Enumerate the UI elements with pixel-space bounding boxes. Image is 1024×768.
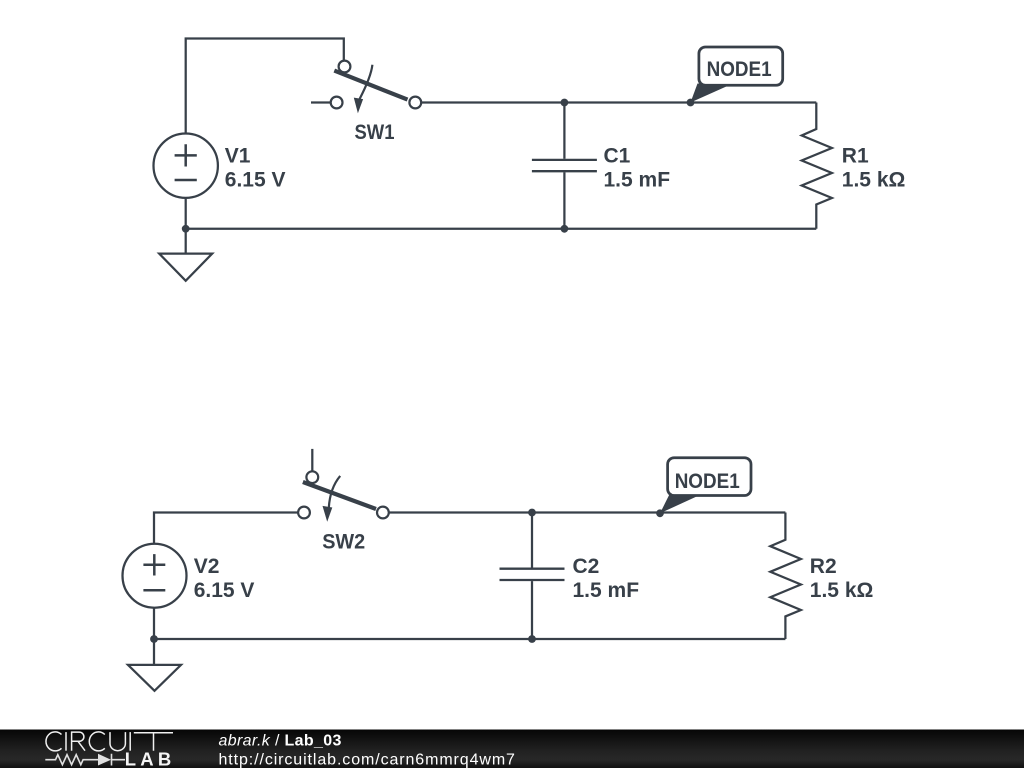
- svg-text:SW2: SW2: [322, 531, 365, 554]
- node NODE1 flag circuit 2: [660, 458, 751, 514]
- label R1 value: [842, 145, 906, 192]
- switch SW1: [331, 61, 421, 114]
- junction dot C2 top: [528, 509, 536, 517]
- node dot NODE1 circuit 1: [687, 99, 695, 107]
- logo CIRCUIT wordmark: [46, 732, 173, 751]
- junction dot V1 bottom: [182, 225, 190, 233]
- junction dot C1 bottom: [561, 225, 569, 233]
- logo resistor-diode symbol: [45, 754, 125, 766]
- footer bar: [0, 730, 1024, 768]
- wire V1 bottom to ground: [185, 198, 187, 254]
- svg-text:http://circuitlab.com/carn6mmr: http://circuitlab.com/carn6mmrq4wm7: [219, 751, 516, 768]
- label C1 value: [604, 145, 671, 192]
- voltage source V1: [154, 134, 218, 198]
- junction dot C2 bottom: [528, 635, 536, 643]
- wire V2 bottom to ground: [153, 608, 155, 665]
- wire V2 top to SW2: [154, 513, 298, 544]
- svg-text:SW1: SW1: [355, 121, 395, 144]
- node dot NODE1 circuit 2: [656, 509, 664, 517]
- label C2 value: [573, 555, 640, 602]
- wire bottom rail circuit 2: [154, 638, 785, 640]
- svg-text:6.15 V: 6.15 V: [225, 169, 286, 192]
- svg-text:NODE1: NODE1: [675, 470, 740, 493]
- node NODE1 flag circuit 1: [691, 47, 783, 103]
- ground symbol circuit 1: [159, 254, 212, 281]
- label V1 value: [225, 145, 286, 192]
- svg-text:abrar.k / Lab_03: abrar.k / Lab_03: [219, 732, 342, 749]
- label V2 value: [194, 555, 255, 602]
- wire stub above SW2 upper throw: [311, 449, 313, 471]
- svg-text:NODE1: NODE1: [707, 58, 772, 81]
- resistor R2: [770, 513, 801, 640]
- svg-text:1.5 mF: 1.5 mF: [573, 579, 640, 602]
- svg-text:1.5 mF: 1.5 mF: [604, 169, 671, 192]
- svg-text:6.15 V: 6.15 V: [194, 579, 255, 602]
- ground symbol circuit 2: [128, 665, 181, 691]
- svg-text:C2: C2: [573, 555, 600, 578]
- resistor R1: [802, 103, 832, 229]
- svg-text:R2: R2: [810, 555, 837, 578]
- wire top-left loop V1 to SW1: [186, 39, 344, 134]
- junction dot C1 top: [561, 99, 569, 107]
- svg-text:C1: C1: [604, 145, 631, 168]
- switch SW2: [298, 471, 389, 521]
- svg-text:R1: R1: [842, 145, 869, 168]
- label R2 value: [810, 555, 874, 602]
- voltage source V2: [123, 544, 187, 608]
- svg-text:V2: V2: [194, 555, 220, 578]
- logo diode triangle: [98, 754, 111, 766]
- svg-text:V1: V1: [225, 145, 251, 168]
- wire top rail SW1 to R1: [421, 101, 816, 103]
- svg-text:1.5 kΩ: 1.5 kΩ: [810, 579, 874, 602]
- junction dot V2 bottom: [150, 635, 158, 643]
- wire rail SW2 to R2: [389, 511, 786, 513]
- capacitor C2: [500, 513, 565, 640]
- svg-text:LAB: LAB: [125, 748, 176, 768]
- capacitor C1: [532, 103, 597, 229]
- svg-text:1.5 kΩ: 1.5 kΩ: [842, 169, 906, 192]
- wire stub left of SW1 lower throw: [311, 101, 331, 103]
- wire bottom rail circuit 1: [186, 228, 817, 230]
